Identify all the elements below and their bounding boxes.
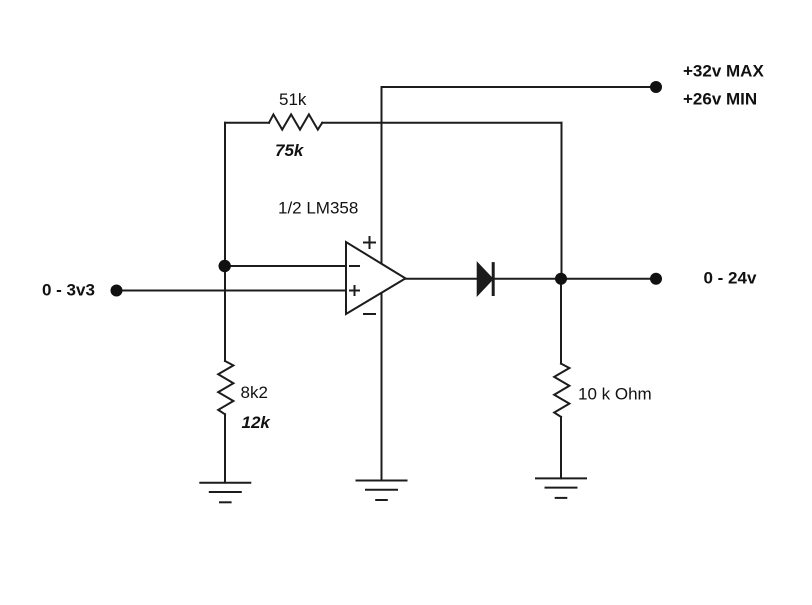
terminal: input 0-3v3 dot [111,285,123,297]
wire: non-inverting input wire from terminal to op-amp [117,290,347,292]
wire: +V top rail from power rail to +32v terminal [382,86,657,88]
svg-text:+32v MAX: +32v MAX [683,62,764,81]
wire: output node down to 10k resistor [560,279,562,364]
terminal: +32v supply dot [650,81,662,93]
diode D1 [478,264,494,295]
wire: from 10k down to ground [560,417,562,478]
wire: feedback top right segment from resistor across rail to right corner [322,122,561,124]
wire: from 8k2 down to ground [224,414,226,482]
ground (left, below 8k2) [200,483,250,503]
svg-text:51k: 51k [279,90,307,109]
svg-text:0 - 24v: 0 - 24v [704,269,757,288]
svg-text:1/2 LM358: 1/2 LM358 [278,199,358,218]
svg-text:8k2: 8k2 [241,383,268,402]
svg-text:12k: 12k [242,413,272,432]
op-amp non-inverting input plus sign [350,286,359,295]
terminal: output 0-24v dot [650,273,662,285]
node B: output junction dot [555,273,567,285]
resistor R-load 10k zigzag [554,364,569,417]
wire: left vertical from feedback corner down to 8k2 resistor [224,123,226,361]
resistor R-feedback 51k zigzag [269,114,322,129]
op-amp inverting input minus sign [350,265,359,267]
svg-text:10 k Ohm: 10 k Ohm [578,385,652,404]
wire: output node to output terminal [561,278,656,280]
svg-text:+26v MIN: +26v MIN [683,89,757,108]
op-amp V- power minus sign [364,313,375,315]
svg-text:75k: 75k [275,141,305,160]
resistor R-divider 8k2 zigzag [218,361,233,414]
wire: diode cathode to output node [493,278,561,280]
wire: op-amp output to diode anode [406,278,478,280]
ground (right, below 10k) [536,478,586,498]
op-amp V+ power plus sign [364,237,375,248]
node A: inverting input junction dot [219,260,231,272]
wire: vertical power rail through op-amp to ground [381,87,383,480]
wire: feedback top left segment from corner to resistor [225,122,269,124]
op-amp U1 1/2 LM358 triangle [346,242,406,314]
wire: inverting input wire from node to op-amp [225,265,346,267]
ground (middle, below op-amp) [357,481,407,501]
wire: right feedback vertical down to output node [561,123,563,279]
svg-text:0 - 3v3: 0 - 3v3 [42,281,95,300]
